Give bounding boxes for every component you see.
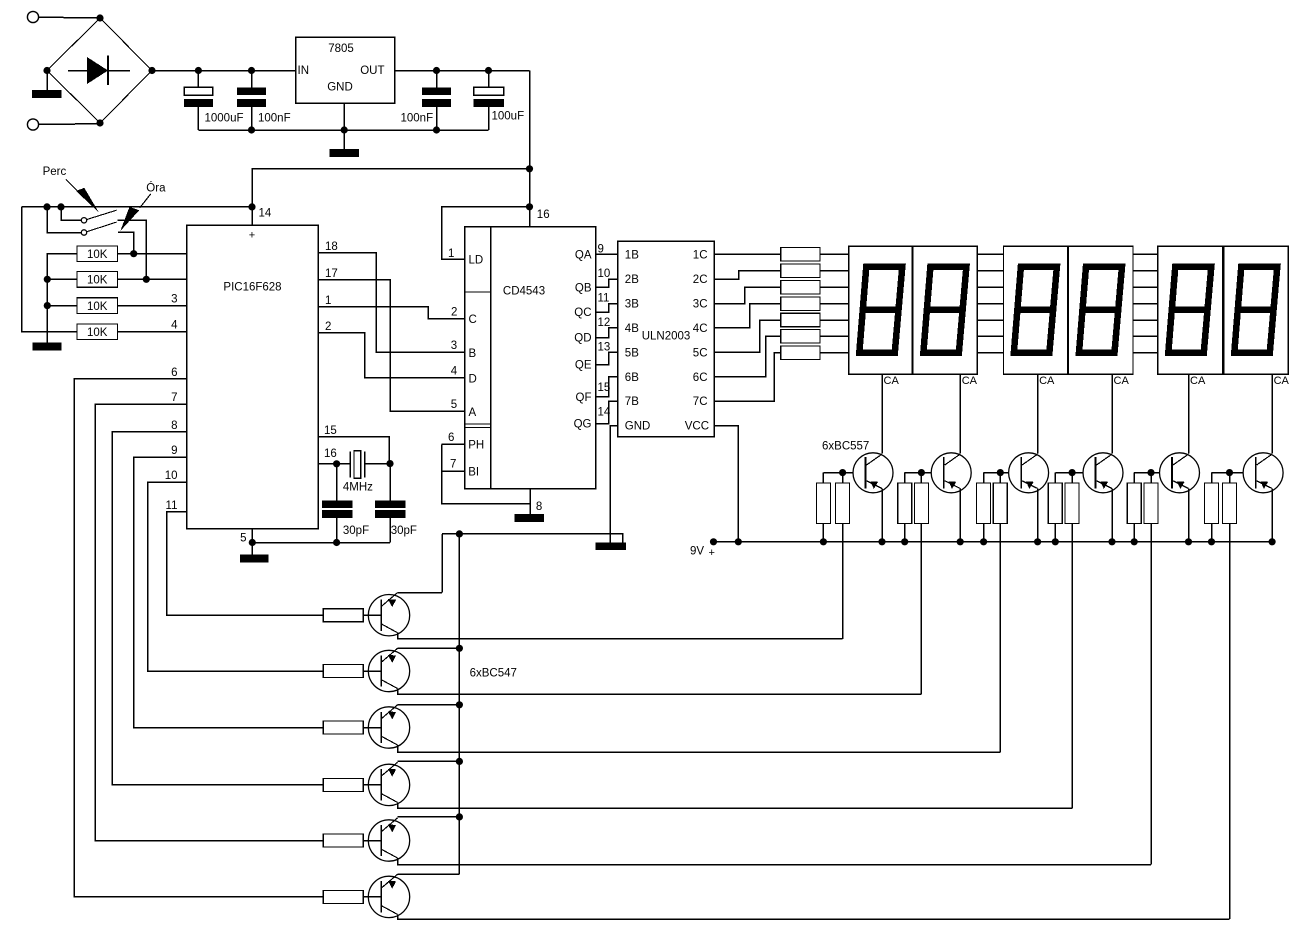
transistor Q5 emitter arrow <box>388 825 396 833</box>
switch Ora contact circle <box>81 230 86 235</box>
wire RB1 down to Q1 <box>842 524 844 639</box>
node emitter bus top <box>456 530 463 537</box>
svg-text:D: D <box>469 374 477 386</box>
CD4543 divider A <box>465 423 491 425</box>
display DIS1 digit middle bar <box>860 306 898 313</box>
transistor Q4 emitter arrow <box>388 769 396 777</box>
svg-text:6C: 6C <box>693 372 708 384</box>
wire RA1 bottom <box>822 524 824 542</box>
transistor Q2 BC547 circle <box>368 650 409 691</box>
svg-text:10: 10 <box>165 470 178 482</box>
wire AC bottom to bridge <box>39 123 100 126</box>
wire Q1 emitter <box>398 592 443 594</box>
wire Q4 collector <box>398 802 1073 808</box>
wire DIS5 CA <box>1188 374 1190 453</box>
svg-text:12: 12 <box>598 317 611 329</box>
wire PIC pin6 to driver <box>74 379 323 897</box>
svg-text:16: 16 <box>324 448 337 460</box>
svg-text:CA: CA <box>962 375 978 387</box>
display DIS4 digit middle bar <box>1080 306 1118 313</box>
display DIS4 digit 8 <box>1079 267 1122 353</box>
resistor R10 segment box <box>781 330 820 344</box>
svg-text:ULN2003: ULN2003 <box>642 331 691 343</box>
wire PIC pin14 stub <box>251 207 253 225</box>
wire QA to ULN 1B <box>596 253 618 255</box>
resistor R8 segment box <box>781 297 820 311</box>
wire PH stub <box>442 443 465 445</box>
node rail sw2 <box>43 203 50 210</box>
node bridge right <box>148 67 155 74</box>
display DIS5 digit 8 <box>1168 267 1211 353</box>
wire RA4 bottom <box>1054 524 1056 542</box>
wire QF to ULN 6B <box>596 377 618 397</box>
svg-text:6xBC547: 6xBC547 <box>470 668 517 680</box>
wire Ora contact to row1 <box>118 232 134 253</box>
wire R10 to display <box>820 335 849 337</box>
resistor RB3 top wire <box>999 473 1001 483</box>
wire Q5 emitter <box>398 816 460 818</box>
svg-text:13: 13 <box>598 341 611 353</box>
node T6 base <box>1226 469 1233 476</box>
transistor T2 BC557 circle <box>931 453 971 493</box>
svg-text:1B: 1B <box>625 249 639 261</box>
resistor R4 10K box <box>77 298 117 314</box>
svg-text:3: 3 <box>171 294 177 306</box>
arrow Ora <box>120 207 139 231</box>
arrow Perc <box>76 188 99 213</box>
svg-text:7: 7 <box>450 459 456 471</box>
wire 2C to R6 <box>714 271 781 279</box>
transistor T1 BC557 circle <box>853 453 893 493</box>
transistor T5 emitter diag <box>1173 481 1189 489</box>
transistor T4 collector diag <box>1097 454 1113 465</box>
wire RB6 down to Q6 <box>1229 524 1231 920</box>
resistor RA5 top wire <box>1133 473 1135 483</box>
node PIC pin14 <box>248 203 255 210</box>
transistor Q6 base bar <box>380 881 382 912</box>
node T2 emitter 9V <box>957 538 964 545</box>
svg-text:1000uF: 1000uF <box>205 112 244 124</box>
capacitor C5 30pF plate2 <box>322 510 353 518</box>
wire 5V switch rail <box>22 206 252 208</box>
node T3 emitter 9V <box>1034 538 1041 545</box>
node bridge bottom <box>96 119 103 126</box>
wire RB3 down to Q3 <box>999 524 1001 752</box>
capacitor C1 1000uF plate1 <box>184 87 213 95</box>
resistor RB6 top wire <box>1229 473 1231 483</box>
resistor RA1 box <box>816 483 830 524</box>
capacitor C4 100uF plate1 <box>474 87 504 95</box>
node bridge top <box>96 14 103 21</box>
svg-text:LD: LD <box>469 255 484 267</box>
wire C5 top <box>336 464 338 501</box>
node C2 bottom <box>248 126 255 133</box>
wire RA5 bottom <box>1133 524 1135 542</box>
IC U3 CD4543 box <box>465 227 596 489</box>
resistor RA4 box <box>1048 483 1062 524</box>
svg-text:11: 11 <box>598 293 610 305</box>
svg-text:15: 15 <box>324 425 337 437</box>
capacitor C4 100uF plate2 <box>474 99 504 107</box>
svg-text:3B: 3B <box>625 299 639 311</box>
resistor RA2 box <box>898 483 912 524</box>
transistor T1 base bar <box>865 457 867 488</box>
resistor RQ4 box <box>323 778 363 791</box>
wire gnd rail crystal <box>252 542 390 544</box>
node RA1 9V <box>820 538 827 545</box>
wire R row2 right <box>117 278 186 280</box>
transistor Q4 base bar <box>380 769 382 800</box>
transistor T3 emitter arrow <box>1026 481 1034 489</box>
transistor T4 base bar <box>1095 457 1097 488</box>
display DIS2 box <box>913 246 977 374</box>
svg-text:2: 2 <box>451 307 457 319</box>
transistor Q2 emitter diag <box>381 648 397 662</box>
wire C6 bottom <box>389 518 391 543</box>
wire ULN GND <box>610 426 618 543</box>
transistor Q1 collector diag <box>381 624 397 633</box>
segment bus pair1-2 <box>977 253 1003 255</box>
wire RQ6 to base <box>363 896 381 898</box>
svg-text:7B: 7B <box>625 396 639 408</box>
svg-text:16: 16 <box>537 209 550 221</box>
node C5 bottom <box>333 539 340 546</box>
capacitor C6 30pF plate2 <box>375 510 406 518</box>
resistor R2 10K box <box>77 246 117 262</box>
svg-text:10K: 10K <box>87 249 108 261</box>
resistor RQ3 box <box>323 721 363 734</box>
wire Q6 collector <box>398 914 1230 919</box>
svg-text:4B: 4B <box>625 323 639 335</box>
svg-text:QB: QB <box>575 282 592 294</box>
crystal X1 plate left <box>349 451 351 477</box>
ground at bridge <box>32 90 62 98</box>
svg-text:4C: 4C <box>693 323 708 335</box>
svg-text:100nF: 100nF <box>258 112 291 124</box>
wire PIC pin10 to driver <box>148 482 324 671</box>
capacitor C2 100nF plate2 <box>237 99 266 107</box>
CD4543 divider PH <box>465 426 491 428</box>
svg-text:6B: 6B <box>625 372 639 384</box>
transistor Q5 base bar <box>380 825 382 856</box>
wire PIC pin5 stub <box>251 529 253 543</box>
node RA4 9V <box>1052 538 1059 545</box>
wire PIC pin18 to CD4543 B <box>318 253 465 353</box>
wire Q5 collector <box>398 858 1152 865</box>
wire PIC pin11 to driver <box>167 512 323 615</box>
svg-text:14: 14 <box>259 208 272 220</box>
wire bottom rail power <box>198 129 488 131</box>
svg-text:7C: 7C <box>693 396 708 408</box>
wire T3 base <box>984 472 1009 474</box>
svg-text:CA: CA <box>1274 375 1290 387</box>
svg-text:1: 1 <box>325 295 331 307</box>
svg-text:QE: QE <box>575 360 592 372</box>
switch Perc lever <box>87 210 117 219</box>
crystal X1 body <box>354 451 361 479</box>
display DIS6 digit 8 <box>1234 267 1277 353</box>
node T1 base <box>839 469 846 476</box>
wire 7805 OUT rail <box>395 70 530 72</box>
transistor T6 emitter diag <box>1257 481 1273 489</box>
svg-text:18: 18 <box>325 241 338 253</box>
wire DIS2 CA <box>959 374 961 453</box>
wire BI stub <box>442 470 465 472</box>
wire RB4 down to Q4 <box>1071 524 1073 809</box>
transistor T3 emitter diag <box>1022 481 1038 489</box>
svg-text:7: 7 <box>171 392 177 404</box>
svg-text:30pF: 30pF <box>343 525 369 537</box>
transistor Q1 BC547 circle <box>368 595 409 636</box>
wire T6 emitter <box>1271 489 1273 542</box>
regulator U2 7805 box <box>296 37 395 103</box>
transistor Q5 emitter diag <box>381 818 397 832</box>
transistor T1 emitter arrow <box>870 481 878 489</box>
resistor RB1 top wire <box>842 473 844 483</box>
wire RB2 down to Q2 <box>920 524 922 695</box>
node 5V tap1 <box>526 165 533 172</box>
wire T3 emitter <box>1037 489 1039 542</box>
wire PIC pin9 to driver <box>134 457 324 727</box>
wire AC top to bridge <box>39 16 100 19</box>
node T3 base <box>997 469 1004 476</box>
wire 9V rail <box>714 541 1273 543</box>
ground below 7805 <box>329 149 359 157</box>
transistor T3 BC557 circle <box>1009 453 1049 493</box>
node RA6 9V <box>1208 538 1215 545</box>
wire C2 top <box>251 71 253 88</box>
wire RQ4 to base <box>363 784 381 786</box>
transistor Q6 emitter diag <box>381 874 397 888</box>
transistor T2 base bar <box>943 457 945 488</box>
wire Q2 collector <box>398 689 922 695</box>
svg-text:+: + <box>249 230 255 242</box>
capacitor C2 100nF plate1 <box>237 87 266 95</box>
svg-text:GND: GND <box>625 421 651 433</box>
resistor RA5 box <box>1127 483 1141 524</box>
transistor T3 collector diag <box>1022 454 1038 465</box>
wire C3 top <box>436 71 438 88</box>
resistor RB6 box <box>1223 483 1237 524</box>
IC U1 PIC16F628 box <box>187 225 318 528</box>
transistor Q6 emitter arrow <box>388 881 396 889</box>
resistor R6 segment box <box>781 264 820 278</box>
wire T2 emitter <box>959 489 961 542</box>
transistor Q5 BC547 circle <box>368 820 409 861</box>
transistor Q3 base bar <box>380 712 382 743</box>
transistor T5 collector diag <box>1173 454 1189 465</box>
svg-text:5B: 5B <box>625 347 639 359</box>
resistor RA3 box <box>977 483 991 524</box>
node C3 top <box>433 67 440 74</box>
wire Q3 collector <box>398 745 1001 752</box>
wire emitter bus <box>458 534 460 874</box>
transistor Q2 collector diag <box>381 680 397 689</box>
display DIS4 box <box>1069 246 1134 374</box>
wire C3 bottom <box>436 107 438 130</box>
CD4543 divider LD <box>465 291 491 293</box>
segment bus pair2-3 <box>1133 253 1158 255</box>
wire 6C to R10 <box>714 336 781 376</box>
display DIS1 box <box>849 246 912 374</box>
node T6 emitter 9V <box>1269 538 1276 545</box>
transistor T6 base bar <box>1255 457 1257 488</box>
wire 5V vertical <box>529 71 531 227</box>
wire C6 top <box>389 464 391 501</box>
wire C5 bottom <box>336 518 338 543</box>
wire DIS3 CA <box>1037 374 1039 453</box>
wire sw2 feed <box>47 207 81 233</box>
node row3 left <box>44 302 51 309</box>
resistor R7 segment box <box>781 280 820 294</box>
svg-text:B: B <box>469 348 477 360</box>
node crystal right <box>386 460 393 467</box>
svg-text:4MHz: 4MHz <box>343 482 373 494</box>
transistor Q2 emitter arrow <box>388 655 396 663</box>
wire RQ3 to base <box>363 727 381 729</box>
wire R row4 right <box>117 331 186 333</box>
svg-text:2: 2 <box>325 321 331 333</box>
wire crystal left <box>337 463 351 465</box>
node crystal left <box>333 460 340 467</box>
svg-text:QG: QG <box>574 419 592 431</box>
node bridge left <box>43 67 50 74</box>
resistor RQ6 box <box>323 890 363 903</box>
svg-text:C: C <box>469 314 477 326</box>
svg-text:Óra: Óra <box>146 181 166 194</box>
display DIS5 box <box>1158 246 1223 374</box>
svg-text:CA: CA <box>1190 375 1206 387</box>
svg-text:VCC: VCC <box>685 421 709 433</box>
transistor Q1 emitter diag <box>381 593 397 607</box>
svg-text:6: 6 <box>448 432 454 444</box>
capacitor C1 1000uF plate2 <box>184 99 213 107</box>
wire R5 to display <box>820 253 849 255</box>
svg-text:CA: CA <box>884 375 900 387</box>
node C3 bottom <box>433 126 440 133</box>
svg-text:30pF: 30pF <box>391 525 417 537</box>
svg-text:4: 4 <box>451 366 458 378</box>
wire DIS4 CA <box>1111 374 1113 453</box>
wire pin8 stub <box>529 489 531 514</box>
svg-text:9V: 9V <box>690 546 704 558</box>
transistor T5 base bar <box>1171 457 1173 488</box>
node T2 base <box>918 469 925 476</box>
transistor T6 BC557 circle <box>1243 453 1283 493</box>
transistor Q4 BC547 circle <box>368 764 409 805</box>
svg-text:6xBC557: 6xBC557 <box>822 441 869 453</box>
transistor T2 emitter diag <box>945 481 961 489</box>
wire C4 bottom <box>488 107 490 130</box>
svg-text:A: A <box>469 407 477 419</box>
svg-text:4: 4 <box>171 320 178 332</box>
node 9V supply <box>710 538 717 545</box>
wire R row3 right <box>117 305 186 307</box>
node T4 emitter 9V <box>1108 538 1115 545</box>
wire DIS1 CA <box>881 374 883 453</box>
node C1 top <box>195 67 202 74</box>
wire PIC pin17 to CD4543 A <box>318 280 465 412</box>
svg-text:8: 8 <box>171 420 177 432</box>
wire GND drop <box>343 130 345 149</box>
transistor T6 emitter arrow <box>1260 481 1268 489</box>
ground below PIC <box>240 555 269 563</box>
wire T1 base <box>823 472 853 474</box>
svg-text:2B: 2B <box>625 274 639 286</box>
node row2 sw <box>143 276 150 283</box>
transistor T1 emitter diag <box>867 481 883 489</box>
resistor RA1 top wire <box>822 473 824 483</box>
wire Q1 emitter vertical <box>441 534 443 593</box>
svg-text:3: 3 <box>451 340 457 352</box>
capacitor C3 100nF plate1 <box>422 87 451 95</box>
wire Q4 emitter <box>398 760 460 762</box>
resistor R5 10K box <box>77 324 117 340</box>
CD4543 inner column <box>490 227 492 489</box>
svg-text:2C: 2C <box>693 274 708 286</box>
resistor RB2 box <box>914 483 928 524</box>
svg-text:GND: GND <box>327 82 353 94</box>
wire RQ2 to base <box>363 670 381 672</box>
transistor Q2 base bar <box>380 655 382 686</box>
transistor T1 collector diag <box>867 454 883 465</box>
wire sw1 feed <box>61 207 81 220</box>
resistor RA3 top wire <box>983 473 985 483</box>
node Q3 emitter bus <box>456 701 463 708</box>
resistor RB5 top wire <box>1150 473 1152 483</box>
resistor RQ2 box <box>323 665 363 678</box>
transistor T5 emitter arrow <box>1177 481 1185 489</box>
wire QB to ULN 2B <box>596 279 618 287</box>
wire bridge left to ground <box>46 71 48 91</box>
wire 1C to R5 <box>714 253 781 255</box>
resistor RQ1 box <box>323 609 363 622</box>
wire pin5 gnd drop <box>251 543 253 555</box>
node 5V tap2 <box>526 203 533 210</box>
wire PH-BI to pin8 <box>442 444 531 503</box>
svg-text:100nF: 100nF <box>401 112 434 124</box>
svg-text:17: 17 <box>325 268 338 280</box>
svg-text:14: 14 <box>598 407 611 419</box>
node Q4 emitter bus <box>456 758 463 765</box>
wire QD to ULN 4B <box>596 328 618 338</box>
transistor T4 emitter diag <box>1097 481 1113 489</box>
node RA5 9V <box>1131 538 1138 545</box>
wire 4C to R8 <box>714 304 781 328</box>
resistor RB4 top wire <box>1071 473 1073 483</box>
svg-text:10K: 10K <box>87 301 108 313</box>
svg-text:BI: BI <box>468 467 479 479</box>
wire Perc contact to row2 <box>117 220 146 279</box>
display DIS6 digit middle bar <box>1235 306 1273 313</box>
resistor RB5 box <box>1144 483 1158 524</box>
display DIS1 digit 8 <box>859 267 902 353</box>
svg-text:QF: QF <box>576 392 592 404</box>
display DIS3 digit middle bar <box>1015 306 1053 313</box>
svg-text:QD: QD <box>574 333 591 345</box>
wire PIC pin2 to CD4543 D <box>318 333 465 378</box>
diode D1 inside bridge anode wire <box>68 70 88 72</box>
wire PIC pin16 <box>318 463 337 465</box>
wire R6 to display <box>820 270 849 272</box>
capacitor C3 100nF plate2 <box>422 99 451 107</box>
wire T4 base <box>1055 472 1083 474</box>
svg-text:100uF: 100uF <box>492 111 525 123</box>
wire T5 emitter <box>1188 489 1190 542</box>
svg-text:3C: 3C <box>693 299 708 311</box>
wire Q2 emitter <box>398 647 460 649</box>
node RA2 9V <box>901 538 908 545</box>
